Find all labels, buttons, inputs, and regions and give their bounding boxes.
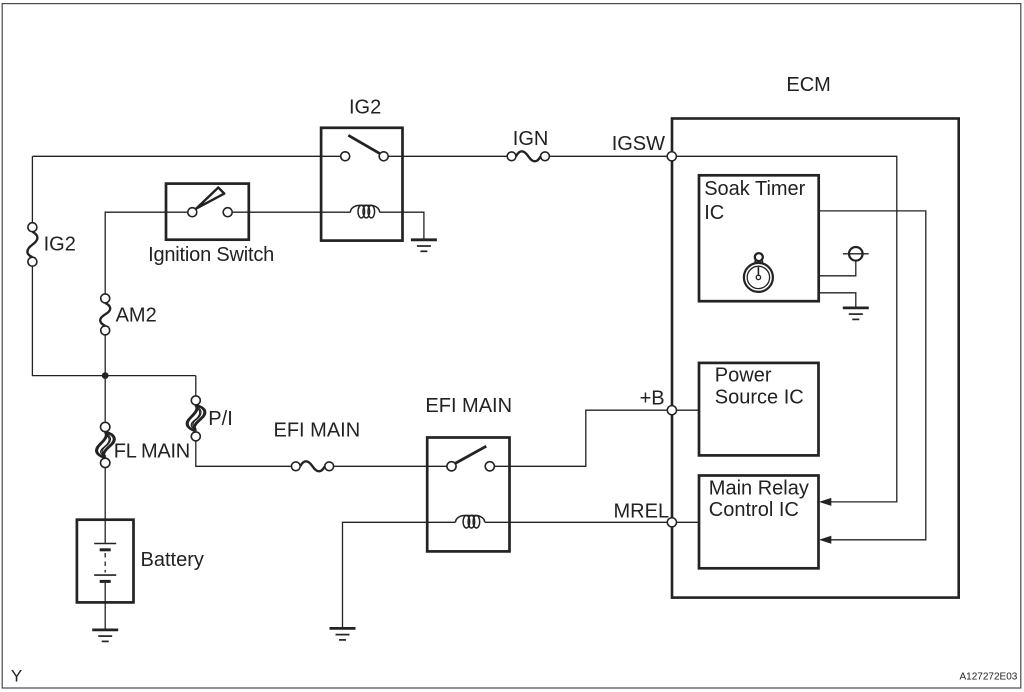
battery xyxy=(77,520,134,603)
node MREL xyxy=(667,518,676,527)
fuse EFI MAIN xyxy=(291,461,333,471)
wire: junction up to AM2 fuse xyxy=(104,335,106,376)
ground (IG2 relay coil) xyxy=(411,240,437,252)
svg-text:IGN: IGN xyxy=(513,128,549,150)
svg-text:AM2: AM2 xyxy=(116,304,157,326)
wire: IG2 fuse to junction bus xyxy=(31,266,33,375)
svg-text:Battery: Battery xyxy=(141,549,204,571)
IC U1 Soak Timer xyxy=(699,175,819,301)
wire: soak timer to ground xyxy=(819,293,856,307)
svg-text:A127272E03: A127272E03 xyxy=(960,671,1018,682)
ground (battery) xyxy=(92,630,118,642)
svg-text:Y: Y xyxy=(11,667,22,686)
wire: junction bus down to P/I fuse xyxy=(195,376,197,396)
svg-text:P/I: P/I xyxy=(208,408,232,430)
wire: EFI relay switch to +B node xyxy=(494,410,667,466)
node +B xyxy=(667,406,676,415)
svg-text:Control IC: Control IC xyxy=(709,499,799,521)
fuse FL MAIN (fusible link) xyxy=(97,422,115,467)
wire: +B node into Power Source IC xyxy=(677,409,700,411)
svg-text:IG2: IG2 xyxy=(349,96,381,118)
IC U2 Power Source xyxy=(699,363,819,456)
wire: EFI relay coil to ground xyxy=(343,522,456,627)
ECM box xyxy=(672,119,959,598)
svg-text:Soak Timer: Soak Timer xyxy=(704,178,805,200)
ignition switch xyxy=(166,184,249,240)
wire: battery negative to ground xyxy=(104,583,106,629)
svg-text:ECM: ECM xyxy=(786,74,830,96)
svg-text:IG2: IG2 xyxy=(44,233,76,255)
relay EFI MAIN xyxy=(427,438,509,552)
wire: ignition switch to IG2 relay coil xyxy=(232,211,350,213)
wire: MREL node into Main Relay Control IC xyxy=(677,521,700,523)
relay IG2 xyxy=(321,128,402,241)
fuse AM2 xyxy=(100,294,110,335)
fuse P/I (fusible link) xyxy=(187,396,205,441)
wire: AM2 fuse up and over to ignition switch xyxy=(105,212,188,294)
svg-text:MREL: MREL xyxy=(614,500,670,522)
junction dot xyxy=(102,372,109,379)
wire: EFI relay coil to MREL node xyxy=(485,521,667,523)
svg-text:IGSW: IGSW xyxy=(612,133,665,155)
fuse IG2 xyxy=(27,223,37,267)
wire: IGSW node to Main Relay Control IC with arrow xyxy=(676,156,896,506)
wire: soak timer to terminal circle xyxy=(819,261,856,276)
svg-text:IC: IC xyxy=(704,202,724,224)
IC U3 Main Relay Control xyxy=(699,476,819,569)
wire: soak timer output to Main Relay Control IC with arrow xyxy=(819,211,926,544)
ground (soak timer) xyxy=(843,308,869,320)
fuse IGN xyxy=(507,151,549,161)
terminal circle symbol xyxy=(843,247,869,261)
svg-text:Ignition Switch: Ignition Switch xyxy=(148,244,274,266)
svg-text:EFI MAIN: EFI MAIN xyxy=(425,395,512,417)
wire: top feed down to IG2 fuse xyxy=(31,156,33,222)
wire: FL MAIN fuse to battery positive plate xyxy=(104,468,106,544)
svg-text:Main Relay: Main Relay xyxy=(709,477,809,499)
wire: IG2 relay switch right pin to IGN fuse xyxy=(388,155,507,157)
svg-text:+B: +B xyxy=(640,387,665,409)
svg-text:EFI MAIN: EFI MAIN xyxy=(274,419,361,441)
wire: IGN fuse to IGSW node xyxy=(549,155,667,157)
wire: IG2 relay coil to ground xyxy=(380,212,424,239)
ground (EFI relay coil) xyxy=(330,628,356,640)
svg-text:Source IC: Source IC xyxy=(715,387,804,409)
svg-text:Power: Power xyxy=(715,365,772,387)
wire: EFI MAIN fuse to EFI MAIN relay xyxy=(334,465,447,467)
wire: IG2 fuse to IG2 relay switch left pin xyxy=(32,155,340,157)
node IGSW xyxy=(667,152,676,161)
wire: junction bus horizontal xyxy=(32,375,196,377)
stopwatch icon xyxy=(744,253,773,292)
svg-text:FL MAIN: FL MAIN xyxy=(114,441,190,463)
wire: junction down to FL MAIN fuse xyxy=(104,376,106,423)
wire: P/I fuse to EFI MAIN fuse xyxy=(196,441,292,466)
